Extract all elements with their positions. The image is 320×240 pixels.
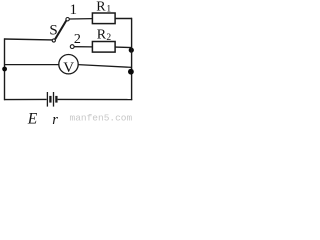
contact 2 circle	[70, 45, 74, 49]
wire left rail vertical	[4, 38, 6, 100]
wire right rail vertical	[131, 18, 133, 100]
wire voltmeter right	[78, 65, 131, 68]
switch S pivot	[52, 39, 55, 42]
wire bottom right	[58, 98, 133, 100]
wire voltmeter left	[5, 64, 59, 66]
resistor R1 box	[92, 13, 115, 24]
node junction voltmeter/rail	[128, 69, 134, 75]
contact 1 circle	[66, 18, 69, 21]
resistor R2 box	[92, 42, 115, 53]
svg-text:1: 1	[70, 2, 78, 18]
wire R2 to right rail	[115, 46, 132, 49]
svg-text:manfen5.com: manfen5.com	[70, 113, 133, 124]
wire top-left horizontal	[4, 38, 52, 41]
switch S blade	[55, 21, 66, 40]
svg-text:S: S	[49, 23, 57, 39]
svg-text:V: V	[63, 60, 74, 76]
wire bottom left	[4, 98, 47, 100]
wire R1 to right rail	[115, 18, 132, 20]
node junction R2/rail	[129, 48, 134, 53]
battery cell long plate 2	[53, 92, 55, 107]
svg-text:1: 1	[106, 4, 111, 14]
battery cell short plate 1	[49, 96, 51, 103]
wire contact2 to R2	[74, 46, 92, 48]
svg-text:R: R	[97, 28, 107, 43]
node junction left rail	[2, 67, 7, 72]
wire contact1 to R1	[69, 18, 92, 20]
battery cell short plate 2	[55, 96, 57, 103]
svg-text:2: 2	[106, 33, 111, 43]
voltmeter V circle	[59, 54, 78, 73]
battery cell long plate 1	[46, 92, 48, 107]
svg-text:r: r	[52, 112, 58, 127]
svg-text:R: R	[96, 0, 106, 15]
svg-text:2: 2	[74, 32, 81, 47]
svg-text:E: E	[27, 110, 38, 127]
